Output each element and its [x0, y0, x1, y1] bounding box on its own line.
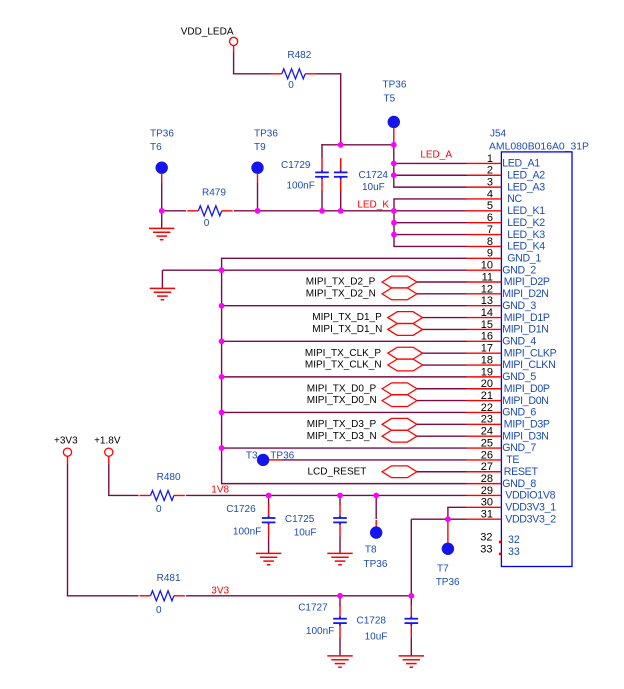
junction LED_A at pin 1	[391, 161, 397, 167]
wire MIPI_TX_D2_P to pin 11	[417, 281, 467, 283]
pin 6 LED_K2	[467, 222, 502, 224]
wire 3V3 rail	[186, 595, 411, 597]
svg-text:MIPI_D1N: MIPI_D1N	[502, 324, 548, 336]
svg-text:10uF: 10uF	[362, 182, 385, 193]
svg-text:100nF: 100nF	[287, 180, 315, 191]
wire to pin 4	[393, 198, 466, 200]
connector J54 box	[501, 152, 572, 567]
junction LED_K at pin 6	[391, 220, 397, 226]
pin 9 GND_1	[467, 257, 502, 259]
pin 31 VDD3V3_2	[467, 518, 502, 520]
junction C1728 on 3V3 rail	[408, 593, 414, 599]
ground below C1725	[327, 553, 352, 564]
svg-text:T9: T9	[254, 142, 266, 153]
svg-text:7: 7	[487, 224, 493, 236]
svg-text:VDDIO1V8: VDDIO1V8	[505, 490, 555, 502]
svg-text:0: 0	[156, 605, 162, 616]
svg-text:17: 17	[481, 343, 493, 355]
off-page connector MIPI_TX_CLK_N	[388, 359, 423, 371]
wire +1.8V down	[108, 464, 110, 495]
off-page connector MIPI_TX_D2_N	[382, 288, 417, 300]
wire C1727 top	[339, 595, 341, 606]
svg-text:MIPI_D0N: MIPI_D0N	[502, 395, 548, 407]
pin 19 GND_5	[467, 376, 502, 378]
svg-text:22: 22	[481, 402, 493, 414]
capacitor C1724	[334, 170, 348, 179]
ground below R479 rail	[149, 228, 174, 239]
wire C1729 bottom	[321, 191, 323, 211]
svg-text:TP36: TP36	[383, 79, 407, 90]
svg-text:NC: NC	[507, 193, 522, 205]
pin 5 LED_K1	[467, 210, 502, 212]
wire 3V3 vertical down to rail	[410, 519, 412, 596]
T6 red stub down	[161, 173, 163, 183]
wire +1.8V to R480	[108, 494, 139, 496]
pin 14 MIPI_D1P	[467, 317, 502, 319]
pin 15 MIPI_D1N	[467, 328, 502, 330]
T9 red stub down	[257, 173, 259, 183]
pin 18 MIPI_CLKN	[467, 364, 502, 366]
svg-text:31: 31	[481, 509, 493, 521]
wire C1728 bottom	[410, 637, 412, 656]
power symbol +1.8V circle	[105, 448, 113, 456]
pin 29 VDDIO1V8	[467, 494, 502, 496]
wire MIPI_TX_CLK_P to pin 17	[423, 352, 467, 354]
svg-text:MIPI_D2P: MIPI_D2P	[504, 276, 550, 288]
svg-text:MIPI_CLKN: MIPI_CLKN	[502, 359, 555, 371]
wire to pin 1	[393, 162, 466, 164]
power symbol +3V3 circle	[63, 448, 71, 456]
off-page connector MIPI_TX_CLK_P	[388, 347, 423, 359]
svg-text:T3: T3	[246, 450, 258, 461]
pin 30 VDD3V3_1	[467, 506, 502, 508]
pin 28 GND_8	[467, 483, 502, 485]
wire GND bus to pin 9	[221, 257, 467, 259]
test point T8 dot	[370, 526, 382, 538]
svg-text:R481: R481	[157, 573, 181, 584]
junction GND bus at pin 16	[219, 338, 225, 344]
wire to pin 30	[447, 506, 466, 508]
wire top cap rail (LED_A net)	[321, 144, 394, 146]
svg-text:33: 33	[480, 543, 492, 555]
wire C1729 top	[321, 144, 323, 158]
pin 24 MIPI_D3N	[467, 435, 502, 437]
pin 10 GND_2	[467, 269, 502, 271]
pin 4 NC	[467, 198, 502, 200]
wire LED_K rail left	[162, 210, 187, 212]
svg-text:4: 4	[487, 188, 493, 200]
junction C1729 on LED_K rail	[319, 208, 325, 214]
junction LED_A at pin 2	[391, 172, 397, 178]
svg-text:100nF: 100nF	[233, 526, 261, 537]
svg-text:LED_A: LED_A	[420, 149, 452, 160]
wire to pin 2	[393, 174, 466, 176]
ground below C1727	[327, 656, 352, 667]
svg-text:GND_6: GND_6	[502, 407, 536, 419]
wire GND bus to pin 13	[221, 305, 467, 307]
svg-text:TP36: TP36	[254, 128, 278, 139]
wire R482 down to cap rail	[340, 74, 342, 145]
wire C1728 top	[410, 595, 412, 606]
junction C1727 on 3V3 rail	[337, 593, 343, 599]
junction GND bus at pin 25	[219, 445, 225, 451]
svg-text:LED_K1: LED_K1	[507, 205, 545, 217]
svg-text:VDD_LEDA: VDD_LEDA	[181, 26, 234, 37]
wire MIPI_TX_D1_N to pin 15	[423, 328, 467, 330]
svg-text:TE: TE	[506, 454, 519, 466]
wire C1724 bottom	[340, 191, 342, 211]
svg-text:1V8: 1V8	[211, 485, 229, 496]
svg-text:26: 26	[481, 449, 493, 461]
svg-text:MIPI_D1P: MIPI_D1P	[504, 312, 550, 324]
svg-text:RESET: RESET	[504, 466, 539, 478]
svg-text:GND_4: GND_4	[502, 336, 536, 348]
svg-text:LED_A3: LED_A3	[507, 181, 545, 193]
pin 11 MIPI_D2P	[467, 281, 502, 283]
svg-text:C1725: C1725	[285, 514, 315, 525]
svg-text:15: 15	[481, 319, 493, 331]
wire +3V3 down	[67, 464, 69, 596]
svg-text:6: 6	[487, 212, 493, 224]
wire GND bus vertical	[221, 258, 223, 483]
T3 red stub right	[269, 459, 282, 461]
wire pin31 junction left	[411, 518, 448, 520]
svg-text:TP36: TP36	[150, 128, 174, 139]
svg-text:10: 10	[481, 260, 493, 272]
svg-text:MIPI_D3N: MIPI_D3N	[502, 430, 548, 442]
pin 12 MIPI_D2N	[467, 293, 502, 295]
svg-text:LED_A2: LED_A2	[507, 169, 545, 181]
svg-text:TP36: TP36	[436, 577, 460, 588]
junction T6/ground on LED_K rail	[159, 208, 165, 214]
svg-text:23: 23	[481, 414, 493, 426]
svg-text:AML080B016A0_31P: AML080B016A0_31P	[489, 141, 589, 152]
svg-text:20: 20	[481, 378, 493, 390]
junction LED_K at pin 7	[391, 232, 397, 238]
junction GND bus at pin 10	[219, 267, 225, 273]
wire down to ground	[161, 211, 163, 229]
wire MIPI_TX_D3_P to pin 23	[417, 423, 467, 425]
off-page connector MIPI_TX_D0_P	[382, 383, 417, 395]
svg-text:VDD3V3_1: VDD3V3_1	[505, 502, 556, 514]
wire T6 to LED_K rail	[161, 183, 163, 211]
wire LCD_RESET to pin 27	[417, 471, 467, 473]
svg-text:33: 33	[508, 546, 520, 558]
pin 33	[499, 553, 502, 556]
svg-text:MIPI_TX_D0_P: MIPI_TX_D0_P	[307, 383, 377, 394]
resistor R480	[151, 490, 174, 500]
wire MIPI_TX_D0_P to pin 20	[417, 388, 467, 390]
pin 7 LED_K3	[467, 234, 502, 236]
svg-text:0: 0	[204, 218, 210, 229]
svg-text:27: 27	[481, 461, 493, 473]
wire to pin 3	[393, 186, 466, 188]
junction T8 on 1V8 rail	[373, 493, 379, 499]
pin 2 LED_A2	[467, 174, 502, 176]
test point T3 dot	[257, 454, 269, 466]
wire MIPI_TX_D0_N to pin 21	[417, 400, 467, 402]
power symbol VDD_LEDA circle	[230, 37, 238, 45]
wire GND bus to pin 16	[221, 340, 467, 342]
svg-text:GND_7: GND_7	[502, 442, 536, 454]
svg-text:30: 30	[481, 497, 493, 509]
svg-text:GND_2: GND_2	[502, 264, 536, 276]
svg-text:18: 18	[481, 354, 493, 366]
junction GND bus at pin 22	[219, 410, 225, 416]
pin 20 MIPI_D0P	[467, 388, 502, 390]
svg-text:MIPI_TX_D0_N: MIPI_TX_D0_N	[307, 395, 377, 406]
junction at T5/LED_A	[391, 142, 397, 148]
pin 32	[499, 541, 502, 544]
wire MIPI_TX_D2_N to pin 12	[417, 293, 467, 295]
off-page connector MIPI_TX_D3_P	[382, 418, 417, 430]
pin 3 LED_A3	[467, 186, 502, 188]
T5 red stub down	[393, 128, 395, 145]
svg-text:MIPI_TX_D2_P: MIPI_TX_D2_P	[306, 277, 376, 288]
wire GND bus to pin 25	[221, 447, 467, 449]
svg-text:LED_K2: LED_K2	[507, 217, 545, 229]
svg-text:32: 32	[508, 534, 520, 546]
svg-text:5: 5	[487, 200, 493, 212]
wire C1725 bottom	[339, 537, 341, 554]
svg-text:MIPI_TX_D1_N: MIPI_TX_D1_N	[312, 324, 382, 335]
svg-text:+3V3: +3V3	[54, 435, 78, 446]
svg-text:13: 13	[481, 295, 493, 307]
pin 17 MIPI_CLKP	[467, 352, 502, 354]
wire MIPI_TX_CLK_N to pin 18	[423, 364, 467, 366]
test point T7 dot	[442, 543, 454, 555]
+1.8V red stub	[108, 456, 110, 464]
ground below C1728	[399, 656, 424, 667]
svg-text:T5: T5	[384, 93, 396, 104]
svg-text:25: 25	[481, 437, 493, 449]
svg-text:100nF: 100nF	[306, 626, 334, 637]
wire to pin 31	[447, 518, 466, 520]
junction C1724 on LED_K rail	[338, 208, 344, 214]
svg-text:9: 9	[487, 248, 493, 260]
off-page connector MIPI_TX_D1_P	[388, 312, 423, 324]
T7 red stub down	[447, 519, 449, 543]
svg-text:GND_8: GND_8	[502, 478, 536, 490]
svg-text:GND_5: GND_5	[502, 371, 536, 383]
svg-text:GND_3: GND_3	[502, 300, 536, 312]
ground below C1726	[256, 553, 281, 564]
svg-text:MIPI_TX_D3_N: MIPI_TX_D3_N	[307, 431, 377, 442]
wire to pin 8	[393, 245, 466, 247]
wire GND bus to pin 22	[221, 411, 467, 413]
pin 26 TE	[467, 459, 502, 461]
pin 16 GND_4	[467, 340, 502, 342]
svg-text:C1724: C1724	[359, 170, 389, 181]
wire pin30 corner vertical	[447, 507, 449, 519]
resistor R481	[151, 591, 174, 601]
wire VDD_LEDA vertical	[233, 52, 235, 74]
wire LED_K rail right to pin 5	[234, 210, 467, 212]
svg-text:T8: T8	[365, 545, 377, 556]
svg-text:T7: T7	[437, 564, 449, 575]
svg-text:R479: R479	[202, 188, 226, 199]
wire C1726 top	[268, 495, 270, 505]
power symbol VDD_LEDA red stub	[233, 46, 235, 52]
wire R482 right	[316, 73, 341, 75]
svg-text:MIPI_D0P: MIPI_D0P	[504, 383, 550, 395]
resistor R479	[198, 206, 221, 216]
svg-text:TP36: TP36	[364, 559, 388, 570]
svg-text:LED_K4: LED_K4	[507, 241, 545, 253]
pin 22 GND_6	[467, 411, 502, 413]
capacitor C1725	[333, 516, 347, 525]
wire C1727 bottom	[339, 637, 341, 656]
svg-text:+1.8V: +1.8V	[94, 435, 121, 446]
capacitor C1727	[333, 616, 347, 625]
svg-text:MIPI_CLKP: MIPI_CLKP	[504, 347, 557, 359]
svg-text:T6: T6	[150, 142, 162, 153]
svg-text:3V3: 3V3	[211, 585, 229, 596]
svg-text:LED_K: LED_K	[357, 200, 389, 211]
svg-text:14: 14	[481, 307, 493, 319]
test point T5 dot	[388, 116, 400, 128]
svg-text:LCD_RESET: LCD_RESET	[308, 466, 367, 477]
svg-text:32: 32	[480, 532, 492, 544]
+3V3 red stub	[67, 456, 69, 464]
pin 25 GND_7	[467, 447, 502, 449]
svg-text:C1728: C1728	[357, 616, 387, 627]
pin 1 LED_A1	[467, 162, 502, 164]
junction pin31/T7/3V3	[445, 516, 451, 522]
off-page connector MIPI_TX_D0_N	[382, 395, 417, 407]
off-page connector MIPI_TX_D1_N	[388, 324, 423, 336]
svg-text:J54: J54	[490, 128, 507, 139]
wire T9 to LED_K rail	[257, 183, 259, 211]
wire GND bus to pin 19	[221, 376, 467, 378]
test point T6 dot	[156, 162, 168, 174]
svg-text:16: 16	[481, 331, 493, 343]
svg-text:MIPI_TX_CLK_P: MIPI_TX_CLK_P	[305, 348, 381, 359]
svg-text:R480: R480	[157, 472, 181, 483]
svg-text:11: 11	[482, 271, 493, 283]
wire LED_K vertical to pins 4-8	[393, 199, 395, 246]
pin 21 MIPI_D0N	[467, 400, 502, 402]
svg-text:MIPI_TX_CLK_N: MIPI_TX_CLK_N	[305, 360, 382, 371]
off-page connector MIPI_TX_D2_P	[382, 276, 417, 288]
svg-text:10uF: 10uF	[294, 528, 317, 539]
junction at R482/C1724/top rail	[338, 142, 344, 148]
wire MIPI_TX_D1_P to pin 14	[423, 317, 467, 319]
pin 8 LED_K4	[467, 245, 502, 247]
test point T9 dot	[251, 162, 263, 174]
junction GND bus at pin 19	[219, 374, 225, 380]
svg-text:C1726: C1726	[226, 504, 256, 515]
wire C1726 bottom	[268, 537, 270, 554]
svg-text:MIPI_TX_D1_P: MIPI_TX_D1_P	[312, 312, 382, 323]
pin 23 MIPI_D3P	[467, 423, 502, 425]
wire C1725 top	[339, 495, 341, 505]
svg-text:21: 21	[481, 390, 493, 402]
wire to pin 6	[393, 222, 466, 224]
capacitor C1728	[405, 616, 419, 625]
svg-text:12: 12	[481, 283, 493, 295]
junction GND bus at pin 13	[219, 303, 225, 309]
off-page connector LCD_RESET	[382, 466, 417, 478]
svg-text:C1729: C1729	[281, 160, 311, 171]
wire T3 to pin 26 TE	[282, 459, 467, 461]
wire to pin 7	[393, 234, 466, 236]
svg-text:GND_1: GND_1	[507, 252, 541, 264]
wire VDD_LEDA to R482	[233, 73, 272, 75]
svg-text:2: 2	[487, 165, 493, 177]
svg-text:LED_A1: LED_A1	[502, 158, 540, 170]
svg-text:10uF: 10uF	[365, 632, 388, 643]
junction C1725 on 1V8 rail	[337, 493, 343, 499]
svg-text:24: 24	[481, 426, 493, 438]
svg-text:MIPI_TX_D2_N: MIPI_TX_D2_N	[306, 288, 376, 299]
svg-text:C1727: C1727	[298, 603, 328, 614]
junction LED_K vertical at pin 5	[391, 208, 397, 214]
resistor R482	[282, 69, 305, 79]
wire GND bus to pin 10	[221, 269, 467, 271]
ground at GND bus	[150, 288, 175, 299]
wire +3V3 to R481	[67, 595, 139, 597]
svg-text:28: 28	[481, 473, 493, 485]
svg-text:8: 8	[487, 236, 493, 248]
wire down to left ground	[161, 270, 163, 288]
svg-text:R482: R482	[287, 50, 311, 61]
wire 1V8 rail to pin 29	[186, 494, 467, 496]
capacitor C1729	[315, 170, 329, 179]
pin 13 GND_3	[467, 305, 502, 307]
T8 red stub	[375, 520, 377, 528]
junction T9 on LED_K rail	[255, 208, 261, 214]
svg-text:19: 19	[481, 366, 493, 378]
wire MIPI_TX_D3_N to pin 24	[417, 435, 467, 437]
svg-text:MIPI_D2N: MIPI_D2N	[502, 288, 548, 300]
svg-text:MIPI_D3P: MIPI_D3P	[504, 419, 550, 431]
wire T8 to 1V8 rail	[375, 495, 377, 519]
svg-text:0: 0	[288, 80, 294, 91]
off-page connector MIPI_TX_D3_N	[382, 430, 417, 442]
svg-text:VDD3V3_2: VDD3V3_2	[505, 513, 556, 525]
junction C1726 on 1V8 rail	[266, 493, 272, 499]
svg-text:0: 0	[156, 504, 162, 515]
svg-text:LED_K3: LED_K3	[507, 229, 545, 241]
svg-text:29: 29	[481, 485, 493, 497]
svg-text:3: 3	[487, 177, 493, 189]
svg-text:MIPI_TX_D3_P: MIPI_TX_D3_P	[307, 419, 377, 430]
capacitor C1726	[262, 516, 276, 525]
pin 27 RESET	[467, 471, 502, 473]
wire LED_A vertical to pins 1-3	[393, 145, 395, 187]
svg-text:1: 1	[487, 153, 493, 165]
wire GND bus to pin 28	[221, 483, 467, 485]
wire bus to left ground	[162, 269, 221, 271]
